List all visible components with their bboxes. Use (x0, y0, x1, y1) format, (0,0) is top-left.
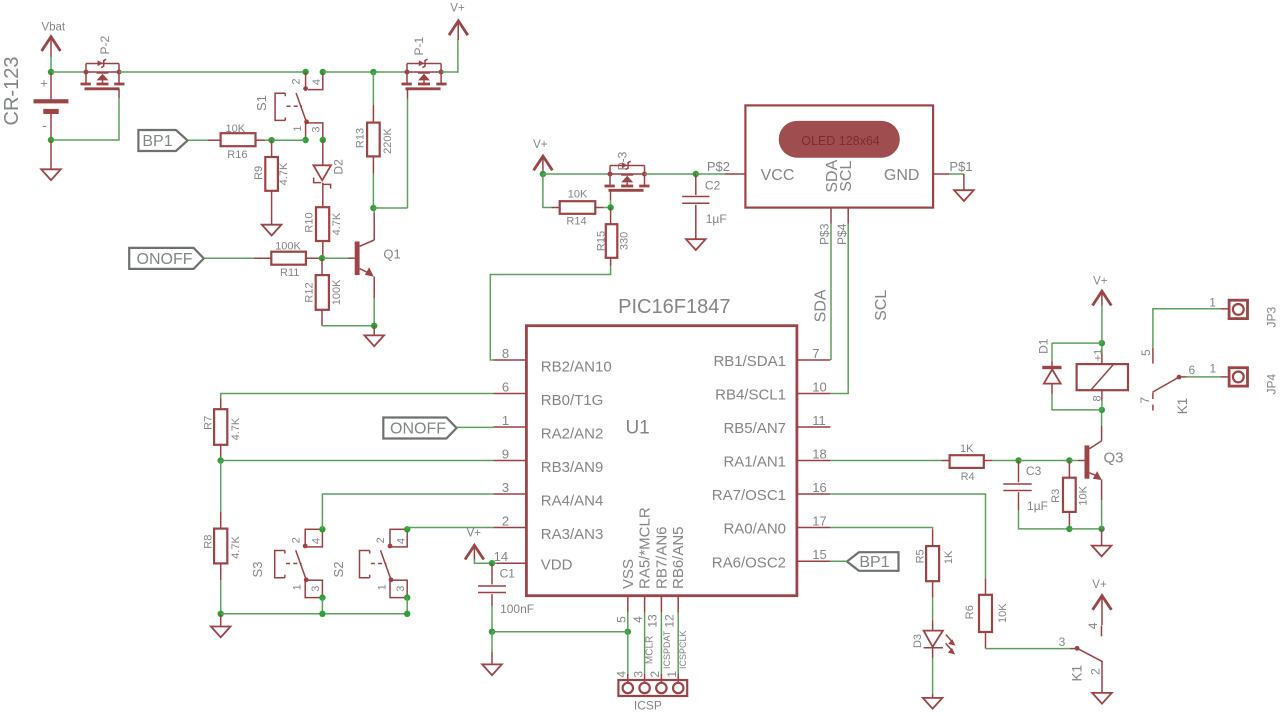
wire SCL OLED to PIC pin 10 (830, 224, 848, 394)
svg-text:ICSPCLK: ICSPCLK (678, 630, 688, 669)
wire R13 top to P-1 (373, 71, 407, 73)
node R16 to R9/S1 junction (268, 137, 274, 143)
relay contact K1 top (1138, 349, 1195, 414)
svg-text:RA5/*MCLR: RA5/*MCLR (637, 507, 654, 589)
wire R8 junction to ground (220, 614, 222, 627)
node S2 pin4 junction (404, 526, 410, 532)
node R13 top junction (370, 69, 376, 75)
pin 12 RB6/AN5 (663, 526, 688, 627)
node VDD junction (489, 560, 495, 566)
power symbol Vbat (41, 22, 65, 57)
node battery minus junction (48, 137, 54, 143)
resistor R9 4.7K (253, 140, 290, 225)
wire S2 pin4 to pin 2 row (407, 528, 493, 530)
svg-text:ONOFF: ONOFF (390, 421, 446, 438)
svg-text:K1: K1 (1175, 398, 1190, 415)
node relay top junction (1099, 340, 1105, 346)
svg-text:VCC: VCC (761, 167, 795, 184)
node S1 pin1 junction (302, 137, 308, 143)
svg-text:S1: S1 (254, 95, 269, 111)
wire ONOFF to R11 (204, 257, 254, 259)
node R13 bottom junction (370, 205, 376, 211)
node S1 pin2 junction (302, 69, 308, 75)
pin 6 RB0/T1G (493, 380, 603, 410)
wire S3 pin4 to pin 3 row (322, 494, 493, 529)
ground below D3 (923, 698, 943, 709)
capacitor C3 1uF (1003, 461, 1069, 529)
pin 13 RB7/AN6 (645, 526, 670, 627)
svg-text:220K: 220K (382, 127, 394, 153)
svg-text:RB4/SCL1: RB4/SCL1 (715, 387, 786, 404)
pin 2 RA3/AN3 (493, 514, 603, 544)
module OLED 128x64 (745, 105, 949, 223)
ground below R8 (211, 627, 231, 638)
svg-text:P$4: P$4 (835, 223, 849, 245)
svg-text:D3: D3 (912, 634, 924, 648)
svg-text:9: 9 (502, 447, 509, 462)
connector ICSP (615, 671, 688, 713)
svg-text:RA1/AN1: RA1/AN1 (723, 454, 786, 471)
power symbol V+ above relay (1093, 276, 1112, 344)
svg-text:12: 12 (663, 614, 677, 628)
pin 1 RA2/AN2 (493, 413, 603, 443)
svg-text:GND: GND (884, 167, 920, 184)
ground below battery (41, 169, 61, 180)
svg-text:4: 4 (311, 79, 323, 85)
svg-text:R10: R10 (304, 212, 316, 232)
node S2 bus junction (404, 611, 410, 617)
svg-text:7: 7 (1138, 397, 1152, 404)
resistor R10 4.7K (304, 207, 343, 258)
transistor Q1 NPN (355, 208, 401, 326)
svg-text:17: 17 (812, 513, 826, 528)
svg-text:R7: R7 (202, 416, 214, 430)
wire K1 pin 6 to JP4 (1187, 376, 1230, 378)
svg-text:4: 4 (631, 616, 645, 623)
switch S1 (254, 72, 323, 140)
power symbol V+ at C1 (465, 528, 492, 564)
resistor R5 1K (915, 529, 955, 620)
node S3 pin3 junction (319, 594, 325, 600)
node V+ junction at P-3 (540, 171, 546, 177)
LED D3 (912, 620, 956, 698)
pin 10 RB4/SCL1 (715, 379, 830, 403)
power symbol V+ middle (533, 139, 552, 174)
resistor R6 10K (964, 578, 1009, 648)
svg-text:3: 3 (395, 586, 407, 592)
resistor R8 4.7K (203, 461, 242, 614)
svg-text:VDD: VDD (541, 557, 573, 574)
svg-text:RA2/AN2: RA2/AN2 (541, 426, 604, 443)
label BP1 right (847, 552, 899, 571)
svg-text:C1: C1 (500, 567, 516, 581)
capacitor C2 1uF (682, 174, 726, 239)
svg-text:1K: 1K (960, 443, 974, 455)
svg-text:R3: R3 (1050, 489, 1062, 503)
svg-text:10K: 10K (568, 189, 588, 201)
resistor R16 10K (208, 123, 272, 161)
svg-text:13: 13 (645, 614, 659, 628)
svg-text:10K: 10K (1078, 485, 1090, 505)
svg-text:100nF: 100nF (500, 602, 534, 616)
wire pin 15 to BP1 (830, 560, 847, 562)
transistor P-3 (P-MOSFET) (605, 151, 650, 190)
svg-text:R4: R4 (961, 471, 975, 483)
wire ground bus S3 S2 (221, 613, 408, 615)
svg-text:1µF: 1µF (706, 212, 727, 226)
node C2 junction (693, 171, 699, 177)
node VSS junction (625, 629, 631, 635)
pin 14 VDD (494, 549, 573, 573)
svg-text:R8: R8 (203, 535, 215, 549)
svg-text:JP3: JP3 (1265, 306, 1279, 327)
node R3 top junction (1066, 457, 1072, 463)
label ONOFF right (383, 418, 456, 439)
node C1 bottom junction (489, 629, 495, 635)
pin 4 RA5/*MCLR (631, 507, 654, 623)
svg-text:Q3: Q3 (1104, 450, 1124, 467)
wire BP1 to R16 (188, 139, 208, 141)
svg-text:6: 6 (1189, 363, 1196, 377)
wire Vbat to battery (50, 56, 52, 72)
svg-text:D2: D2 (332, 159, 346, 175)
battery CR-123 (1, 57, 68, 140)
pin 8 RB2/AN10 (493, 346, 611, 376)
svg-text:S2: S2 (331, 562, 346, 578)
svg-text:RB1/SDA1: RB1/SDA1 (713, 353, 786, 370)
svg-text:4: 4 (1086, 622, 1100, 629)
transistor Q3 NPN (1085, 410, 1124, 529)
wire ICSPCLK to ICSP pin 1 (678, 613, 688, 682)
svg-text:1: 1 (1209, 296, 1216, 310)
svg-text:5: 5 (1139, 349, 1153, 356)
transistor P-2 (P-MOSFET) (81, 35, 125, 88)
ground below K1 (1092, 693, 1112, 704)
svg-text:K1: K1 (1070, 665, 1085, 682)
svg-text:3: 3 (1059, 635, 1066, 649)
svg-text:Vbat: Vbat (41, 22, 65, 34)
svg-text:Q1: Q1 (383, 246, 400, 261)
wire ONOFF to pin 1 (457, 426, 494, 428)
svg-text:R9: R9 (253, 166, 265, 180)
svg-text:3: 3 (631, 671, 645, 678)
ground below Q1 (364, 335, 384, 346)
svg-text:ICSPDAT: ICSPDAT (662, 630, 672, 669)
resistor R11 100K (254, 241, 322, 279)
svg-text:2: 2 (648, 671, 662, 678)
node battery plus junction (48, 69, 54, 75)
wire R6 to K1 pin 3 (986, 648, 1078, 650)
svg-text:-: - (42, 117, 47, 133)
connector JP3 (1209, 296, 1278, 328)
svg-text:SCL: SCL (838, 161, 855, 192)
capacitor C1 100nF (478, 563, 534, 632)
svg-text:1: 1 (292, 125, 304, 131)
pin 11 RB5/AN7 (723, 413, 830, 437)
diode D2 zener (313, 140, 345, 207)
svg-text:3: 3 (311, 126, 323, 132)
svg-text:R16: R16 (227, 149, 247, 161)
node R7/R8 junction (218, 457, 224, 463)
svg-text:2: 2 (291, 78, 303, 84)
label BP1 (138, 130, 187, 151)
node S3 pin4 junction (319, 526, 325, 532)
pin 15 RA6/OSC2 (712, 547, 831, 571)
node Q1 emitter junction (371, 323, 377, 329)
node R8 bottom junction (218, 611, 224, 617)
svg-text:1µF: 1µF (1027, 499, 1048, 513)
wire ICSPDAT to ICSP pin 2 (661, 613, 671, 682)
svg-text:SCL: SCL (873, 290, 890, 321)
wire R3 junction to Q3 base (1069, 460, 1084, 462)
wire pin 16 to R6 (830, 494, 985, 578)
svg-text:RA7/OSC1: RA7/OSC1 (712, 487, 786, 504)
svg-text:1K: 1K (943, 550, 955, 564)
svg-text:1: 1 (376, 584, 388, 590)
wire R3 bottom to Q3 emitter junction (1069, 528, 1101, 530)
resistor R15 330 (595, 208, 630, 267)
svg-text:RA3/AN3: RA3/AN3 (541, 526, 604, 543)
svg-text:1: 1 (292, 584, 304, 590)
svg-text:C3: C3 (1026, 464, 1042, 478)
wire P-3 gate down (610, 190, 612, 207)
svg-text:RA0/AN0: RA0/AN0 (723, 521, 786, 538)
wire battery minus to ground (50, 140, 52, 169)
label ONOFF left (129, 248, 204, 269)
svg-text:3: 3 (502, 480, 509, 495)
wire S2 pin3 to bus (406, 598, 408, 614)
wire S1 to R13 (323, 71, 374, 73)
svg-text:R11: R11 (280, 267, 299, 279)
node Q3 emitter junction (1098, 526, 1104, 532)
switch S3 (250, 529, 323, 597)
resistor R12 100K (304, 258, 343, 326)
svg-text:U1: U1 (625, 418, 649, 439)
wire junction to pin 9 (221, 460, 494, 462)
svg-text:RB0/T1G: RB0/T1G (541, 392, 604, 409)
svg-text:P$2: P$2 (707, 159, 730, 174)
transistor P-1 (P-MOSFET) (402, 36, 447, 88)
wire S3 pin3 to bus (321, 598, 323, 614)
svg-text:+: + (40, 76, 48, 91)
svg-text:1: 1 (665, 671, 679, 678)
wire C2 to OLED VCC (696, 173, 746, 175)
node Q1 base junction (319, 255, 325, 261)
svg-text:BP1: BP1 (142, 133, 172, 150)
wire V+ to P-3 (543, 173, 610, 175)
IC U1 PIC16F1847 (526, 296, 797, 596)
svg-text:16: 16 (812, 480, 826, 495)
svg-text:SDA: SDA (813, 289, 830, 322)
svg-text:V+: V+ (1092, 579, 1107, 591)
wire base junction to Q1 (322, 257, 355, 259)
wire JP3 to K1 pin 5 (1153, 309, 1220, 364)
svg-text:P-1: P-1 (412, 36, 426, 55)
pin 16 RA7/OSC1 (712, 480, 831, 504)
wire P-1 to V+ (441, 39, 458, 72)
node R14/R15/P-3 gate junction (607, 204, 613, 210)
ground below R9 (262, 225, 282, 236)
resistor R13 220K (355, 72, 394, 208)
wire SDA OLED to PIC pin 7 (830, 224, 832, 360)
node S1 pin3 junction (320, 137, 326, 143)
svg-text:2: 2 (375, 537, 387, 543)
svg-text:1: 1 (1209, 361, 1216, 375)
resistor R4 1K (941, 443, 1018, 483)
svg-text:2: 2 (1088, 668, 1102, 675)
svg-text:330: 330 (619, 232, 631, 250)
wire VSS to ICSP pin 4 (627, 613, 629, 682)
svg-text:4.7K: 4.7K (278, 162, 290, 185)
wire P-3 to C2 (645, 173, 696, 175)
svg-text:100K: 100K (331, 279, 343, 305)
svg-text:R14: R14 (566, 216, 586, 228)
svg-text:V+: V+ (533, 139, 548, 151)
pin 17 RA0/AN0 (723, 513, 830, 537)
node C3 top junction (1015, 457, 1021, 463)
svg-text:11: 11 (812, 413, 826, 428)
svg-text:RA6/OSC2: RA6/OSC2 (712, 554, 786, 571)
svg-text:R6: R6 (964, 605, 976, 619)
wire R15 to PIC pin 8 (490, 266, 610, 360)
node S3 bus junction (319, 611, 325, 617)
svg-text:D1: D1 (1037, 338, 1051, 354)
wire R13 bottom to P-1 gate (373, 89, 407, 208)
diode D1 (1037, 338, 1102, 410)
switch S2 (331, 529, 407, 597)
svg-text:JP4: JP4 (1265, 374, 1279, 395)
svg-text:R13: R13 (355, 128, 367, 148)
pin 9 RB3/AN9 (493, 447, 603, 477)
wire pin 6 row to R7 (221, 394, 494, 399)
svg-text:3: 3 (310, 586, 322, 592)
svg-text:6: 6 (502, 380, 509, 395)
svg-text:RB7/AN6: RB7/AN6 (653, 526, 670, 589)
wire R12 to Q1 emitter (322, 325, 374, 327)
wire emitter junction to ground (1101, 529, 1103, 546)
svg-text:P-2: P-2 (98, 35, 112, 54)
svg-text:ICSP: ICSP (634, 698, 662, 712)
svg-text:10K: 10K (997, 603, 1009, 623)
svg-text:VSS: VSS (620, 559, 637, 589)
svg-text:15: 15 (812, 547, 826, 562)
svg-text:V+: V+ (467, 528, 482, 540)
svg-text:RB2/AN10: RB2/AN10 (541, 359, 612, 376)
power symbol V+ top (449, 3, 468, 40)
pin 5 VSS (615, 559, 637, 623)
pin 18 RA1/AN1 (723, 446, 830, 470)
node S2 pin3 junction (404, 594, 410, 600)
node R3 bottom junction (1066, 526, 1072, 532)
svg-text:ONOFF: ONOFF (137, 251, 193, 268)
wire OLED GND to ground (949, 174, 964, 190)
wire C1 to VSS (492, 631, 628, 633)
svg-text:+1: +1 (1093, 349, 1105, 362)
svg-text:CR-123: CR-123 (1, 57, 23, 126)
svg-text:4: 4 (311, 538, 323, 544)
svg-text:18: 18 (812, 446, 826, 461)
ground at P$1 (954, 190, 974, 201)
svg-text:RB3/AN9: RB3/AN9 (541, 459, 604, 476)
wire P-2 gate down to battery minus net (51, 89, 119, 140)
svg-text:V+: V+ (1093, 276, 1108, 288)
svg-text:7: 7 (812, 346, 819, 361)
svg-text:R5: R5 (915, 549, 927, 563)
svg-text:P$3: P$3 (817, 223, 831, 245)
ground below Q3 (1092, 546, 1112, 557)
svg-text:V+: V+ (450, 3, 465, 15)
resistor R7 4.7K (202, 399, 242, 461)
svg-text:2: 2 (502, 514, 509, 529)
svg-text:RB5/AN7: RB5/AN7 (723, 420, 786, 437)
svg-text:2: 2 (290, 537, 302, 543)
svg-text:C2: C2 (705, 179, 721, 193)
pin 3 RA4/AN4 (493, 480, 603, 510)
wire pin 18 to R4 (830, 460, 941, 462)
svg-text:R12: R12 (304, 282, 316, 302)
wire junction to S1 pins (272, 139, 306, 141)
resistor R14 10K (552, 189, 611, 228)
pin 7 RB1/SDA1 (713, 346, 830, 370)
wire VDD junction to pin 14 (492, 562, 497, 564)
svg-text:MCLR: MCLR (645, 636, 656, 664)
wire C1 junction to ground (491, 632, 493, 665)
connector JP4 (1209, 361, 1278, 394)
wire to R3 top (1019, 460, 1070, 462)
svg-text:8: 8 (502, 346, 509, 361)
svg-text:4: 4 (395, 538, 407, 544)
wire V+ down to R14 (543, 174, 552, 208)
node S1 pin4 junction (320, 69, 326, 75)
svg-text:RA4/AN4: RA4/AN4 (541, 493, 604, 510)
power symbol V+ at K1 (1092, 579, 1111, 636)
relay contact K1 bottom (1059, 622, 1103, 693)
svg-text:10: 10 (812, 379, 826, 394)
ground below C1 (482, 664, 502, 675)
wire pin 17 to R5 (830, 528, 932, 530)
wire emitter junction to ground (373, 326, 375, 336)
svg-text:BP1: BP1 (859, 554, 889, 571)
wire battery plus to P-2 (51, 71, 86, 73)
svg-text:4.7K: 4.7K (230, 536, 242, 559)
svg-text:OLED 128x64: OLED 128x64 (801, 134, 880, 148)
svg-text:5: 5 (615, 616, 629, 623)
svg-text:1: 1 (502, 413, 509, 428)
svg-text:P$1: P$1 (949, 159, 972, 174)
svg-text:4: 4 (615, 671, 629, 678)
relay K1 coil (1077, 343, 1128, 410)
resistor R3 10K (1050, 461, 1089, 529)
svg-text:4.7K: 4.7K (331, 212, 343, 235)
node relay bottom junction (1099, 407, 1105, 413)
ground below C2 (686, 239, 706, 250)
svg-text:14: 14 (494, 549, 508, 564)
svg-text:RB6/AN5: RB6/AN5 (670, 526, 687, 589)
svg-text:PIC16F1847: PIC16F1847 (618, 296, 730, 318)
svg-text:4.7K: 4.7K (230, 417, 242, 440)
wire P-2 drain to S1 (119, 71, 306, 73)
wire MCLR to ICSP pin 3 (645, 613, 656, 682)
svg-text:S3: S3 (250, 562, 265, 578)
